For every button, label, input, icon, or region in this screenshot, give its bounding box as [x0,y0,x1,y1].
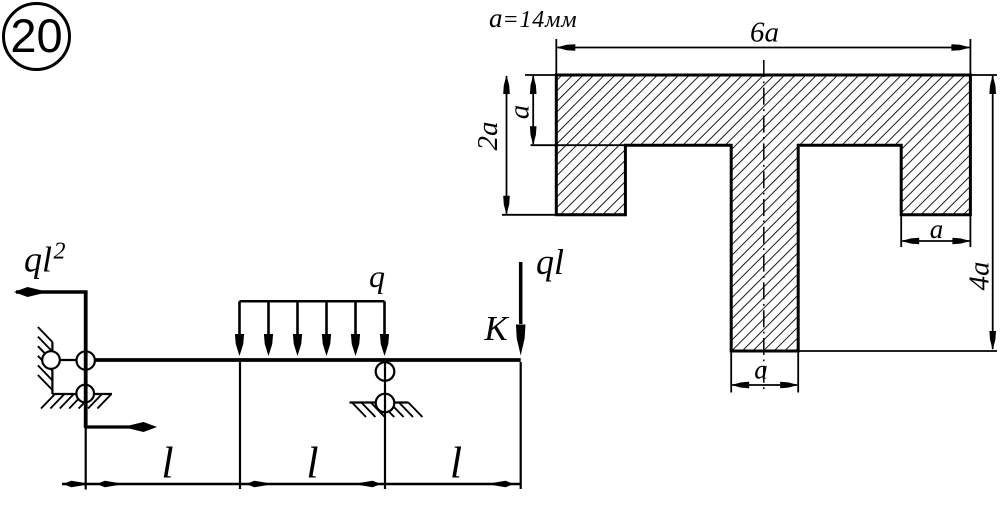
svg-text:4a: 4a [964,262,996,291]
svg-text:K: K [483,309,509,348]
svg-text:a: a [504,105,536,120]
svg-text:q: q [369,258,385,294]
svg-text:l: l [161,439,173,488]
svg-text:2a: 2a [472,122,504,151]
svg-text:a: a [754,355,768,385]
svg-text:ql: ql [536,242,564,282]
svg-text:6a: 6a [750,17,779,49]
svg-text:a=14мм: a=14мм [489,3,577,33]
svg-text:l: l [306,439,318,488]
svg-text:20: 20 [10,9,62,62]
svg-text:l: l [450,439,462,488]
svg-text:a: a [930,214,944,244]
